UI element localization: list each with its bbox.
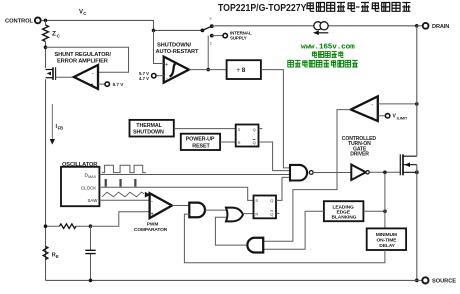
wire DMAX from oscillator to NAND (99, 174, 289, 176)
title text TOP221P/G-TOP227Y (218, 3, 307, 15)
svg-text:5.7 V: 5.7 V (113, 82, 125, 87)
svg-text:+: + (165, 62, 168, 67)
wire gate node down to minimum on-time delay (384, 172, 386, 228)
svg-text:SHUTDOWN/: SHUTDOWN/ (157, 43, 192, 49)
box minimum on-time delay (367, 228, 406, 250)
svg-text:ERROR AMPLIFIER: ERROR AMPLIFIER (57, 58, 108, 64)
wire VC rail from CONTROL to switch (41, 10, 201, 33)
resistor RE (43, 246, 59, 259)
box power-up reset (181, 134, 220, 150)
svg-text:SOURCE: SOURCE (432, 279, 456, 285)
svg-text:5.7 V: 5.7 V (139, 71, 149, 76)
title chinese characters 内部电路图 (306, 2, 355, 11)
svg-text:Q: Q (253, 127, 256, 132)
wire error amp feedback from control rail (46, 47, 129, 72)
flip-flop latch1 SR (236, 125, 259, 147)
svg-text:R: R (255, 212, 258, 217)
comparator U6 current limit (351, 96, 378, 121)
wire drain rail vertical (416, 26, 418, 156)
svg-text:RESET: RESET (192, 143, 210, 149)
svg-text:POWER-UP: POWER-UP (186, 137, 215, 143)
waveform CLOCK pulses (105, 179, 137, 187)
svg-text:E: E (56, 254, 59, 259)
switch S1 auto-restart supply switch (201, 16, 214, 46)
resistor R-filter horizontal (60, 224, 77, 229)
terminal CONTROL (5, 18, 41, 25)
wire current limit comparator output to AND2 (263, 110, 351, 242)
svg-text:CLOCK: CLOCK (81, 186, 96, 191)
svg-text:+: + (151, 212, 154, 217)
terminal 5.7V reference for error amp (98, 82, 124, 87)
svg-text:SUPPLY: SUPPLY (230, 36, 247, 41)
terminal VILIMIT (378, 114, 408, 121)
svg-text:MAX: MAX (88, 175, 96, 179)
wire driver output to MOSFET gate (369, 171, 400, 175)
wire latch1 Q stub (259, 128, 263, 130)
wire OR1 output to latch2 R (243, 213, 254, 215)
terminal DRAIN (417, 23, 449, 30)
comparator U3 PWM (134, 193, 172, 233)
wire NAND output to gate driver (313, 172, 351, 174)
svg-text:4.7 V: 4.7 V (139, 76, 149, 81)
oscillator box (61, 162, 99, 206)
resistor ZC (43, 20, 61, 47)
svg-text:s: s (210, 16, 212, 21)
box thermal shutdown (130, 120, 174, 137)
svg-text:÷ 8: ÷ 8 (237, 67, 246, 74)
svg-text:COMPARATOR: COMPARATOR (134, 227, 168, 233)
svg-text:DRAIN: DRAIN (432, 24, 449, 30)
wire internal supply node down to shutdown comparator output (206, 36, 210, 72)
terminal SOURCE (417, 277, 456, 284)
svg-text:SHUTDOWN: SHUTDOWN (133, 130, 164, 136)
svg-text:FB: FB (58, 125, 64, 130)
wire min on-time delay output to AND1 lower input (184, 214, 385, 263)
svg-text:BLANKING: BLANKING (332, 215, 357, 221)
svg-text:R: R (238, 140, 241, 145)
svg-text:EDGE: EDGE (337, 210, 351, 216)
wire divide-by-8 output down to NAND input (261, 70, 290, 168)
svg-text:+: + (91, 82, 94, 87)
wire latch2 Q up to NAND input (276, 177, 290, 200)
title chinese characters 电子制作网 (361, 2, 410, 11)
waveform SAW sawtooth with arrow (102, 192, 151, 198)
svg-text:LEADING: LEADING (333, 204, 354, 210)
capacitor C1 filter (85, 226, 95, 280)
transistor Q2 output MOSFET (400, 154, 418, 175)
wire SAW from oscillator to PWM comparator (99, 199, 149, 201)
svg-text:MINIMUM: MINIMUM (376, 232, 397, 238)
svg-text:THERMAL: THERMAL (136, 123, 162, 129)
node IFB current arrow (50, 104, 63, 145)
watermark chinese 电子制作网 (312, 51, 344, 57)
wire power-up reset to latch1 R (220, 141, 236, 143)
comparator U2 shutdown auto-restart (156, 43, 200, 83)
flip-flop latch2 SR (254, 196, 277, 219)
svg-text:ILIMIT: ILIMIT (397, 116, 408, 120)
wire top rail to DRAIN (212, 24, 419, 28)
wire thermal shutdown to latch1 S (174, 128, 236, 130)
wire CLOCK from oscillator to latch2 S (99, 187, 253, 200)
watermark chinese 配套出售开关电源套件 (288, 60, 358, 67)
wire AND2 output to OR1 lower input (215, 217, 247, 245)
or gate OR1 (226, 208, 243, 222)
wire latch1 Qbar to NAND input (259, 142, 290, 171)
box divide-by-8 counter (227, 60, 261, 79)
svg-text:AUTO-RESTART: AUTO-RESTART (156, 49, 200, 55)
wire LEB to gate node (363, 210, 386, 214)
svg-text:S: S (238, 127, 241, 132)
svg-text:Q: Q (270, 212, 273, 217)
waveform DMAX square wave (102, 165, 146, 172)
wire bottom source rail (46, 279, 417, 283)
title dash (356, 6, 360, 7)
svg-text:CONTROL: CONTROL (5, 18, 34, 24)
svg-text:INTERNAL: INTERNAL (230, 30, 252, 35)
transistor Q1 shunt regulator pass device (46, 67, 74, 80)
svg-text:SAW: SAW (88, 198, 99, 203)
svg-text:DELAY: DELAY (379, 243, 395, 249)
node internal supply terminal (210, 30, 252, 40)
svg-text:Q: Q (253, 140, 256, 145)
watermark www.165v.com (301, 43, 355, 51)
svg-text:PWM: PWM (147, 222, 159, 228)
wire latch2 Qbar stub (276, 212, 280, 214)
wire source vertical down to bottom rail (415, 165, 419, 283)
svg-text:Q: Q (270, 198, 273, 203)
wire shutdown comparator output to divide-by-8 (189, 69, 227, 71)
box leading edge blanking (324, 201, 364, 221)
terminal 5.7V/4.7V threshold input (139, 71, 164, 81)
and gate AND1 (189, 203, 205, 218)
svg-text:SHUNT REGULATOR/: SHUNT REGULATOR/ (55, 52, 112, 58)
wire bottom feedback node (44, 224, 93, 228)
svg-text:TOP221P/G-TOP227Y: TOP221P/G-TOP227Y (218, 3, 307, 15)
svg-text:+: + (371, 115, 374, 120)
wire VC to shutdown comparator plus input (154, 30, 164, 63)
svg-text:DRIVER: DRIVER (350, 152, 369, 158)
svg-text:ON-TIME: ON-TIME (377, 237, 398, 243)
svg-text:S: S (255, 198, 258, 203)
wire node to PWM comparator plus input (91, 212, 150, 226)
wire left control rail (44, 45, 48, 280)
op-amp U1 shunt regulator / error amplifier (55, 52, 112, 89)
wire LEB left to AND2 input (263, 211, 324, 249)
current source internal supply on drain rail (313, 22, 328, 35)
wire drain sense to current limit comparator (378, 102, 419, 106)
wire AND1 output to OR1 (205, 209, 227, 211)
and gate AND2 mirrored (247, 238, 263, 253)
svg-text:Z: Z (52, 31, 56, 38)
buffer U5 controlled turn-on gate driver (342, 136, 377, 180)
svg-text:www.165v.com: www.165v.com (301, 43, 355, 51)
nand gate U4 (290, 165, 313, 181)
wire PWM output to AND1 (172, 205, 190, 207)
